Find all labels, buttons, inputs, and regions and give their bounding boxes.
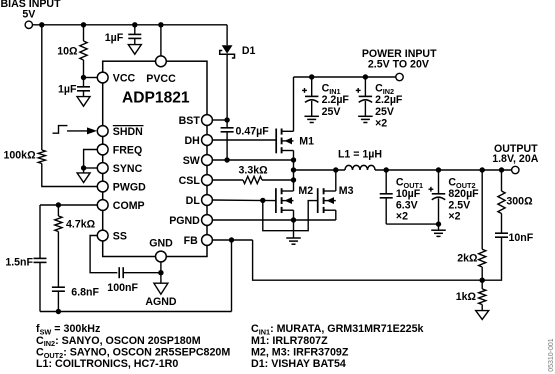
pin PGND — [202, 215, 213, 226]
svg-text:300Ω: 300Ω — [506, 195, 533, 207]
node junction bias rail / 1uF pvcc — [132, 22, 137, 27]
ground earth power ground — [286, 237, 301, 239]
wire SYNC to tie node — [84, 167, 98, 169]
wire bootstrap cap to SW — [226, 132, 228, 160]
svg-text:×2: ×2 — [375, 117, 387, 129]
svg-text:M1: M1 — [299, 135, 314, 147]
svg-text:AGND: AGND — [145, 296, 177, 308]
wire BST lead — [212, 119, 227, 121]
svg-text:1µF: 1µF — [105, 32, 124, 44]
svg-text:D1: VISHAY BAT54: D1: VISHAY BAT54 — [251, 358, 346, 370]
svg-text:×2: ×2 — [448, 211, 460, 223]
wire output rail — [375, 169, 512, 171]
node junction CSL / column — [291, 177, 296, 182]
node junction rail / COUT1 — [384, 167, 389, 172]
svg-text:ADP1821: ADP1821 — [122, 90, 190, 107]
svg-text:FREQ: FREQ — [113, 144, 142, 156]
node junction rail / CIN2 — [363, 74, 368, 79]
svg-text:BST: BST — [179, 115, 201, 127]
wire 10nF to FB node — [482, 237, 501, 280]
pin FREQ — [97, 144, 108, 155]
wire 100nF to AGND node — [123, 272, 161, 274]
wire COUT1 bottom to COUT2 bottom — [386, 223, 438, 225]
svg-text:DL: DL — [186, 195, 201, 207]
svg-text:3.3kΩ: 3.3kΩ — [239, 164, 269, 176]
svg-text:DH: DH — [184, 135, 199, 147]
pin DL — [202, 195, 213, 206]
node junction AGND — [158, 270, 163, 275]
wire M2 source to PGND rail — [293, 210, 295, 220]
node junction SW / bootstrap — [224, 157, 229, 162]
pin FB — [202, 235, 213, 246]
node junction rail / CIN1 — [309, 74, 314, 79]
resistor R 100k — [38, 150, 45, 164]
pin CSL — [202, 175, 213, 186]
wire 6.8nF to bottom rail — [57, 291, 59, 311]
node junction PGND / M2 source / ground — [291, 217, 296, 222]
pin DH — [202, 135, 213, 146]
inductor L1 1uH — [345, 165, 375, 170]
ground earth below CIN1 — [304, 115, 319, 117]
svg-text:2.2µF: 2.2µF — [322, 94, 350, 106]
pin SYNC — [97, 163, 108, 174]
svg-text:25V: 25V — [375, 106, 394, 118]
node junction 6.8nF / bottom rail — [56, 309, 61, 314]
pin SHDN with overline — [97, 126, 108, 137]
resistor R 4.7k — [57, 205, 59, 216]
svg-text:2kΩ: 2kΩ — [457, 253, 478, 265]
resistor R 3.3k current sense — [243, 176, 262, 183]
svg-text:SYNC: SYNC — [113, 163, 143, 175]
node junction SW / M1 source column — [291, 157, 296, 162]
wire 10ohm top lead — [83, 25, 85, 41]
pin COMP — [97, 200, 108, 211]
wire 1uF top lead — [83, 78, 85, 87]
pin SS — [97, 230, 108, 241]
transistor Q M2 IRFR3709Z low-side NMOS — [275, 188, 277, 213]
wire FREQ to SYNC tie — [84, 150, 98, 169]
wire 300ohm to 10nF — [501, 214, 503, 234]
wire comp bottom rail to FB drop — [40, 311, 232, 313]
wire M3 source down to PGND rail — [335, 210, 337, 220]
svg-text:M2, M3: IRFR3709Z: M2, M3: IRFR3709Z — [251, 346, 349, 358]
svg-text:SS: SS — [113, 230, 127, 242]
svg-text:PGND: PGND — [169, 215, 200, 227]
wire 1k to ground — [481, 305, 483, 311]
svg-text:PWGD: PWGD — [113, 181, 146, 193]
resistor R 2k — [479, 249, 486, 267]
svg-text:×2: ×2 — [396, 211, 408, 223]
terminal bias input 5V — [25, 21, 32, 28]
svg-text:FB: FB — [184, 235, 198, 247]
resistor R 10ohm — [80, 41, 87, 60]
wire 2k top lead — [481, 170, 483, 249]
capacitor C COUT1 10uF — [385, 170, 387, 194]
ground agnd triangle below 1k — [476, 311, 489, 320]
svg-text:CSL: CSL — [179, 175, 201, 187]
wire 1.5nF top segment — [39, 205, 41, 258]
wire 10ohm to VCC node — [83, 60, 85, 78]
ground AGND triangle — [154, 283, 168, 294]
node junction FREQ/SYNC tie — [81, 165, 86, 170]
wire 1uF to ground — [83, 91, 85, 97]
svg-text:1kΩ: 1kΩ — [456, 291, 477, 303]
node junction FB — [229, 237, 234, 242]
svg-text:SHDN: SHDN — [113, 126, 143, 138]
capacitor C 6.8nF — [52, 286, 65, 288]
node junction BST / D1 / bootstrap cap — [224, 117, 229, 122]
pin GND — [156, 251, 167, 262]
wire power input rail — [294, 76, 396, 78]
wire 4.7k to 6.8nF — [57, 232, 59, 288]
wire 1.5nF bottom segment — [39, 262, 41, 311]
terminal power input — [396, 73, 403, 80]
ground agnd triangle below 1uF vcc — [77, 97, 90, 107]
svg-text:5V: 5V — [22, 8, 35, 20]
diode D1 schottky BAT54 — [226, 25, 228, 45]
node junction rail / 300ohm — [499, 167, 504, 172]
svg-text:1µF: 1µF — [58, 83, 77, 95]
IC U1 ADP1821 body — [103, 61, 207, 256]
wire 2k to FB node — [481, 267, 483, 280]
capacitor C 1uF at VCC — [77, 86, 90, 88]
node junction rail / 2k divider — [480, 167, 485, 172]
wire 1uF pvcc to ground — [134, 38, 136, 44]
svg-text:25V: 25V — [322, 106, 341, 118]
wire M1 drain to power rail — [293, 77, 295, 131]
svg-text:1.8V, 20A: 1.8V, 20A — [492, 153, 538, 165]
wire DH to M1 gate — [212, 139, 276, 141]
wire COMP lead left — [40, 204, 98, 206]
svg-text:1.5nF: 1.5nF — [5, 257, 33, 269]
resistor R 300ohm — [498, 191, 505, 214]
svg-text:100kΩ: 100kΩ — [4, 149, 37, 161]
terminal output — [512, 166, 519, 173]
wire GND pin to AGND — [160, 262, 162, 283]
node junction bias rail / PVCC drop — [158, 22, 163, 27]
wire 100k to PWGD — [42, 164, 98, 187]
svg-text:05310-001: 05310-001 — [548, 338, 555, 372]
svg-text:10nF: 10nF — [509, 232, 534, 244]
wire tie to ground — [83, 168, 85, 173]
wire PVCC drop — [160, 25, 162, 56]
capacitor C COUT2 820uF polarized — [438, 170, 440, 194]
svg-text:4.7kΩ: 4.7kΩ — [66, 219, 96, 231]
node junction COUT2 bottom / ground — [436, 221, 441, 226]
resistor R 1k — [481, 280, 483, 289]
ground earth below COUT2 — [431, 229, 446, 231]
svg-text:6.8nF: 6.8nF — [71, 287, 99, 299]
svg-text:PVCC: PVCC — [146, 73, 176, 85]
wire 3.3k to column — [262, 179, 294, 181]
wire gate tie loop M2 to M3 — [263, 200, 318, 230]
capacitor C 0.47uF bootstrap — [221, 127, 234, 129]
arrow into SHDN pin — [67, 130, 88, 132]
wire 1uF pvcc top lead — [134, 25, 136, 35]
node junction bias rail / 100k branch — [39, 22, 44, 27]
svg-text:M3: M3 — [339, 185, 354, 197]
wire PGND to earth ground — [293, 220, 295, 238]
wire M1 source column down to M2 drain — [293, 151, 295, 192]
node junction rail / COUT2 — [436, 167, 441, 172]
wire M3 drain up to rail — [335, 170, 337, 191]
transistor Q M3 IRFR3709Z low-side NMOS — [317, 188, 319, 213]
wire FB drop to comp bottom rail — [231, 240, 233, 312]
svg-text:10µF: 10µF — [396, 188, 421, 200]
wire SW lead — [212, 159, 293, 161]
shutdown step input symbol — [53, 126, 68, 134]
svg-text:2.5V TO 20V: 2.5V TO 20V — [368, 58, 429, 70]
pin VCC — [97, 72, 108, 83]
wire 100k branch down — [41, 25, 43, 150]
transistor Q M1 IRLR7807Z high-side NMOS — [275, 129, 277, 154]
wire DL lead — [212, 199, 276, 202]
svg-text:COMP: COMP — [113, 200, 145, 212]
svg-text:VCC: VCC — [113, 72, 136, 84]
node junction M3 drain / rail — [333, 167, 338, 172]
node junction VCC / 1uF — [81, 75, 86, 80]
svg-text:L1 = 1µH: L1 = 1µH — [338, 149, 382, 161]
svg-text:L1: COILTRONICS, HC7-1R0: L1: COILTRONICS, HC7-1R0 — [36, 358, 178, 370]
wire bootstrap cap top lead — [226, 120, 228, 128]
wire FB lead — [212, 239, 252, 241]
node junction column / output branch — [291, 167, 296, 172]
pin PWGD — [97, 181, 108, 192]
ground earth below CIN2 — [358, 115, 373, 117]
node junction COMP / 4.7k — [56, 202, 61, 207]
svg-text:2.2µF: 2.2µF — [375, 94, 403, 106]
svg-text:0.47µF: 0.47µF — [236, 126, 270, 138]
node junction bias rail / 10ohm branch — [81, 22, 86, 27]
svg-text:10Ω: 10Ω — [57, 45, 78, 57]
capacitor C CIN1 2.2uF polarized — [311, 77, 313, 96]
node junction FB divider — [480, 278, 485, 283]
svg-text:6.3V: 6.3V — [396, 199, 418, 211]
capacitor C 10nF — [495, 232, 508, 234]
ground agnd triangle below 1uF pvcc — [128, 45, 141, 55]
svg-text:2.5V: 2.5V — [448, 199, 470, 211]
svg-text:M1: IRLR7807Z: M1: IRLR7807Z — [251, 335, 328, 347]
svg-text:820µF: 820µF — [448, 188, 479, 200]
ground agnd triangle below SYNC — [77, 173, 90, 183]
pin PVCC — [156, 56, 167, 67]
capacitor C 100nF soft start — [118, 267, 120, 278]
svg-text:D1: D1 — [242, 45, 256, 57]
wire 300ohm top lead — [501, 170, 503, 191]
svg-text:GND: GND — [149, 238, 173, 250]
pin SW — [202, 155, 213, 166]
wire SW node to inductor rail — [294, 169, 346, 171]
wire 5V bias rail from input terminal to D1 anode — [33, 24, 228, 26]
capacitor C CIN2 2.2uF polarized — [364, 77, 366, 96]
svg-text:M2: M2 — [298, 185, 313, 197]
capacitor C 1.5nF — [34, 257, 47, 259]
svg-text:SW: SW — [183, 155, 200, 167]
wire VCC node to VCC pin — [84, 77, 98, 79]
wire SS loop to soft-start cap — [90, 236, 117, 273]
wire FB to divider — [253, 240, 483, 280]
wire CSL lead — [212, 179, 243, 181]
capacitor C 1uF at PVCC rail — [128, 33, 141, 35]
node junction DL / gate tie — [260, 198, 265, 203]
wire PGND rail — [212, 219, 335, 221]
svg-text:100nF: 100nF — [107, 282, 138, 294]
pin BST — [202, 115, 213, 126]
